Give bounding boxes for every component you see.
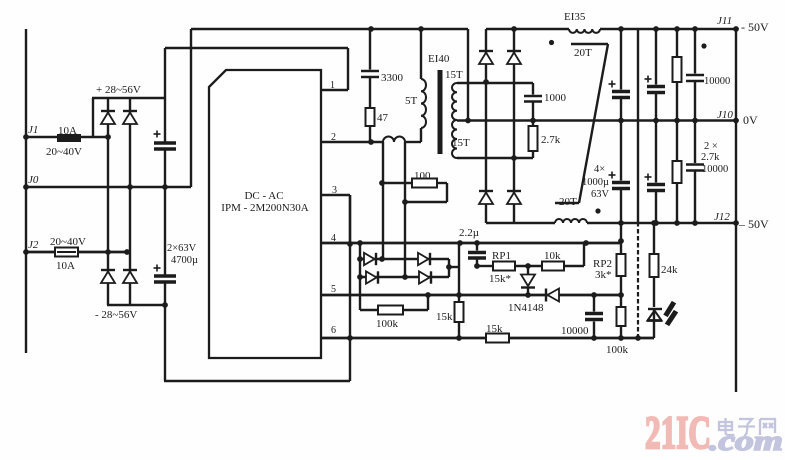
svg-text:10000: 10000 (704, 76, 730, 87)
svg-text:J11: J11 (717, 15, 732, 27)
svg-text:J1: J1 (28, 124, 38, 136)
svg-text:4700µ: 4700µ (171, 255, 198, 266)
svg-text:J10: J10 (717, 109, 733, 121)
svg-text:100k: 100k (606, 344, 629, 356)
svg-text:3300: 3300 (381, 72, 404, 84)
svg-text:5T: 5T (405, 95, 418, 107)
svg-text:2.7k: 2.7k (541, 134, 561, 146)
svg-text:10000: 10000 (561, 325, 589, 337)
svg-text:+ 28~56V: + 28~56V (96, 84, 141, 96)
svg-text:10k: 10k (544, 250, 561, 262)
svg-text:- 28~56V: - 28~56V (95, 309, 137, 321)
svg-text:20T: 20T (574, 47, 592, 59)
svg-text:20T: 20T (559, 196, 577, 208)
svg-text:4×: 4× (594, 164, 605, 175)
svg-text:J0: J0 (28, 174, 39, 186)
svg-text:1: 1 (330, 80, 335, 91)
svg-text:2.2µ: 2.2µ (459, 227, 479, 239)
svg-text:24k: 24k (661, 264, 678, 276)
svg-text:21IC: 21IC (645, 407, 711, 459)
svg-text:15T: 15T (445, 69, 463, 81)
svg-text:63V: 63V (591, 189, 610, 200)
svg-text:- 50V: - 50V (741, 20, 769, 34)
svg-text:15k: 15k (486, 323, 503, 335)
svg-text:1000µ: 1000µ (582, 177, 609, 188)
svg-text:EI35: EI35 (564, 11, 586, 23)
svg-text:EI40: EI40 (428, 53, 450, 65)
svg-text:15k: 15k (436, 311, 453, 323)
svg-text:4: 4 (331, 233, 336, 244)
svg-text:20~40V: 20~40V (50, 236, 86, 248)
svg-text:100: 100 (414, 170, 431, 182)
svg-text:15T: 15T (452, 137, 470, 149)
svg-text:3: 3 (332, 185, 337, 196)
svg-text:2.7k: 2.7k (701, 152, 720, 163)
svg-text:2: 2 (331, 132, 336, 143)
svg-text:1000: 1000 (544, 92, 567, 104)
svg-text:5: 5 (331, 284, 336, 295)
svg-text:1N4148: 1N4148 (508, 302, 544, 314)
svg-text:RP1: RP1 (492, 250, 511, 262)
svg-text:IPM - 2M200N30A: IPM - 2M200N30A (221, 202, 308, 214)
svg-text:6: 6 (331, 325, 336, 336)
svg-text:10A: 10A (58, 125, 77, 137)
svg-text:2 ×: 2 × (704, 141, 718, 152)
svg-text:0V: 0V (743, 113, 758, 127)
svg-text:47: 47 (377, 112, 389, 124)
svg-text:3k*: 3k* (595, 269, 612, 281)
svg-text:20~40V: 20~40V (46, 146, 82, 158)
svg-text:15k*: 15k* (489, 273, 511, 285)
svg-text:DC - AC: DC - AC (244, 190, 283, 202)
svg-text:10A: 10A (56, 260, 75, 272)
svg-text:100k: 100k (376, 318, 399, 330)
svg-text:10000: 10000 (702, 164, 728, 175)
svg-text:J2: J2 (28, 239, 39, 251)
svg-text:J12: J12 (714, 211, 730, 223)
svg-text:– 50V: – 50V (738, 217, 769, 231)
svg-text:2×63V: 2×63V (167, 243, 197, 254)
